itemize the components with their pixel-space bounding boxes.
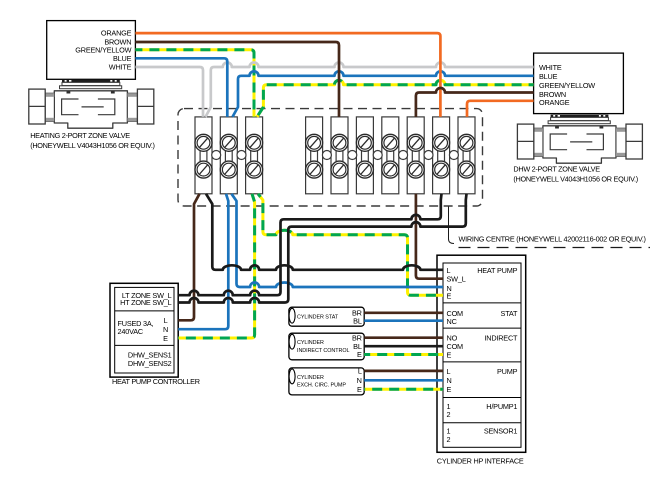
wiring centre terminal R5 [407,117,424,194]
wire: brown, exch circ pump L to HP interface L [364,370,443,373]
wiring centre terminal R2 [331,117,348,194]
wiring centre leader line [449,207,455,244]
svg-text:CYLINDER: CYLINDER [297,375,324,381]
wire: earth, indirect control E to HP interface E [364,353,443,356]
svg-text:2: 2 [447,435,451,444]
svg-text:E: E [447,351,452,360]
svg-text:SW_L: SW_L [447,275,466,284]
svg-text:INDIRECT CONTROL: INDIRECT CONTROL [297,348,349,354]
wire: black, terminal L1 to HP interface L [206,194,443,270]
svg-text:L: L [447,266,451,275]
svg-text:EXCH. CIRC. PUMP: EXCH. CIRC. PUMP [297,383,346,389]
heating 2-port zone valve symbol [29,80,154,129]
svg-text:E: E [447,291,452,300]
wiring centre terminal L1 [195,117,212,194]
svg-text:(HONEYWELL V4043H1056 OR EQUIV: (HONEYWELL V4043H1056 OR EQUIV.) [513,175,638,184]
svg-text:E: E [163,334,168,343]
wire: orange, DHW valve to terminal R7 [467,101,534,117]
wire: brown, cylinder stat BR to HP interface COM [364,311,443,314]
wire: earth green/yellow, DHW valve to terminal L3 [257,80,534,117]
svg-text:2: 2 [447,410,451,419]
heating valve wire label box [47,21,136,80]
svg-text:HT ZONE SW_L: HT ZONE SW_L [120,298,172,307]
svg-text:N: N [163,325,168,334]
svg-text:HEAT PUMP: HEAT PUMP [477,266,517,275]
wiring centre terminal L2 [220,117,237,194]
svg-text:DHW 2-PORT ZONE VALVE: DHW 2-PORT ZONE VALVE [513,165,600,174]
wire: blue, exch circ pump N to HP interface N [364,379,443,382]
wire: brown, terminal R5 to HP interface SW_L [416,194,443,279]
wiring centre terminal R6 [433,117,450,194]
cylinder stat cable [289,307,364,326]
wiring centre terminal R3 [356,117,373,194]
wire: earth green/yellow, heating valve to terminal L3 [135,50,254,117]
svg-text:E: E [357,350,362,359]
svg-text:HEAT PUMP CONTROLLER: HEAT PUMP CONTROLLER [112,377,200,386]
wire: white, heating valve to terminal L1 [135,67,203,117]
svg-text:240VAC: 240VAC [118,327,143,336]
svg-text:N: N [447,376,452,385]
wire: black, indirect control BL to HP interface COM [364,345,443,348]
wire: orange, heating valve to terminal R6 [135,33,440,117]
wire: brown, DHW valve to terminal R5 [416,88,534,117]
wire: earth green/yellow, terminal L3 to controller E [178,194,254,338]
wire: blue, DHW valve to terminal L2 [233,71,534,117]
wire: black, terminal R7 to controller HT ZONE SW_L [178,194,466,303]
svg-text:ORANGE: ORANGE [539,98,570,107]
svg-text:L: L [164,316,168,325]
svg-text:GREEN/YELLOW: GREEN/YELLOW [539,81,595,90]
svg-text:DHW_SENS2: DHW_SENS2 [128,359,172,368]
svg-text:L: L [447,367,451,376]
DHW valve wire label box [534,53,624,114]
svg-text:STAT: STAT [501,309,519,318]
wire: brown, terminal L1 to controller L [178,194,199,320]
svg-text:CYLINDER STAT: CYLINDER STAT [297,314,339,320]
wire: earth, exch circ pump E to HP interface E [364,388,443,391]
svg-text:NC: NC [447,317,457,326]
svg-text:N: N [357,376,362,385]
wiring centre terminal R7 [458,117,475,194]
wire: brown, heating valve to terminal R2 [135,42,339,117]
wiring centre terminal R1 [306,117,323,194]
wire: black, terminal R6 to controller LT ZONE SW_L [178,194,441,295]
wiring centre terminal R4 [382,117,399,194]
svg-text:L: L [358,367,362,376]
wiring centre dashed enclosure [178,109,483,206]
terminal link junctions [212,151,221,160]
DHW 2-port zone valve symbol [517,115,642,164]
svg-text:E: E [447,385,452,394]
wire: white, DHW valve to terminal L1 [206,63,534,117]
svg-text:WHITE: WHITE [109,62,132,71]
wire: blue, terminal L2 to HP interface N [232,194,444,287]
svg-text:PUMP: PUMP [497,367,518,376]
svg-text:H/PUMP1: H/PUMP1 [486,402,517,411]
svg-text:ORANGE: ORANGE [101,29,132,38]
wire: blue, cylinder stat BL to HP interface NC [364,319,443,322]
svg-text:CYLINDER: CYLINDER [297,340,324,346]
cylinder indirect control cable [289,333,364,360]
cylinder exch. circ. pump cable [289,367,364,395]
wiring centre terminal L3 [246,117,263,194]
svg-text:(HONEYWELL V4043H1056 OR EQUIV: (HONEYWELL V4043H1056 OR EQUIV.) [30,141,155,150]
svg-text:CYLINDER HP INTERFACE: CYLINDER HP INTERFACE [437,456,524,465]
svg-text:SENSOR1: SENSOR1 [484,427,518,436]
wire: brown, indirect control BR to HP interface NO [364,336,443,339]
wire: blue, terminal L2 to controller N [178,194,228,329]
svg-text:BLUE: BLUE [539,72,558,81]
svg-text:E: E [357,385,362,394]
svg-text:WHITE: WHITE [539,63,562,72]
wire: earth green/yellow, terminal L3 to cylinder HP interface E [258,194,443,295]
svg-text:WIRING CENTRE (HONEYWELL 42002: WIRING CENTRE (HONEYWELL 42002116-002 OR… [459,235,646,244]
svg-text:BL: BL [353,316,362,325]
cylinder HP interface U2 [437,255,526,452]
wire: blue, heating valve to terminal L2 [135,58,227,117]
svg-text:INDIRECT: INDIRECT [484,334,518,343]
svg-text:HEATING 2-PORT ZONE VALVE: HEATING 2-PORT ZONE VALVE [30,131,130,140]
heat pump controller U1 [110,283,178,377]
